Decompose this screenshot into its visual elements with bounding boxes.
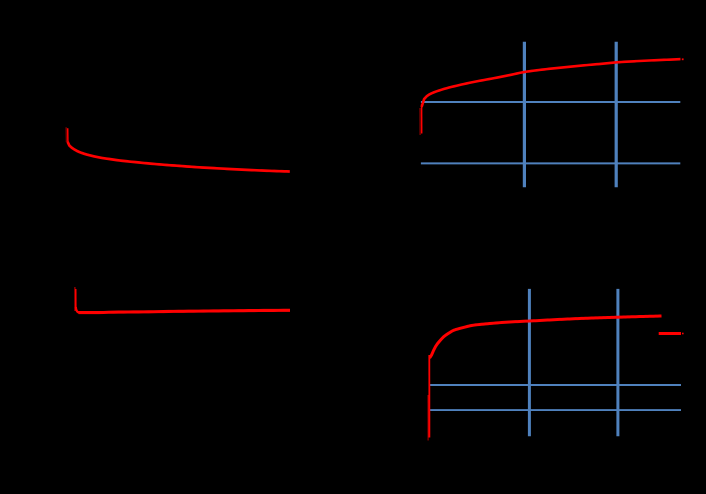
gridline vertical x=616.2 — [615, 42, 618, 188]
top-right chart — [420, 42, 684, 188]
bottom-left curve main — [79, 310, 291, 312]
top-left chart: red series curve — [66, 127, 290, 171]
gridline vertical x=529.4 — [528, 289, 531, 436]
top-right curve end dot — [682, 58, 684, 60]
bottom-right curve vertical tail — [427, 395, 429, 441]
legend dash end dot — [682, 333, 684, 335]
top-left curve vertical tail — [65, 127, 67, 142]
gridline horizontal y=410.1 — [430, 409, 681, 411]
gridline horizontal y=102 — [421, 101, 680, 103]
bottom-left curve vertical tail — [74, 287, 76, 311]
legend dash red series — [659, 332, 681, 335]
bottom-right chart — [428, 289, 684, 441]
gridline horizontal y=385 — [430, 384, 681, 386]
top-left curve main — [68, 142, 290, 172]
bottom-right curve main — [430, 316, 662, 358]
gridline vertical x=524.4 — [523, 42, 526, 188]
bottom-left curve knee — [76, 307, 80, 313]
gridline horizontal y=163.4 — [421, 162, 680, 164]
top-right curve main — [422, 59, 681, 107]
gridline vertical x=617.9 — [616, 289, 619, 436]
bottom-left chart: red series curve — [75, 287, 290, 313]
top-right curve vertical tail — [419, 108, 421, 135]
